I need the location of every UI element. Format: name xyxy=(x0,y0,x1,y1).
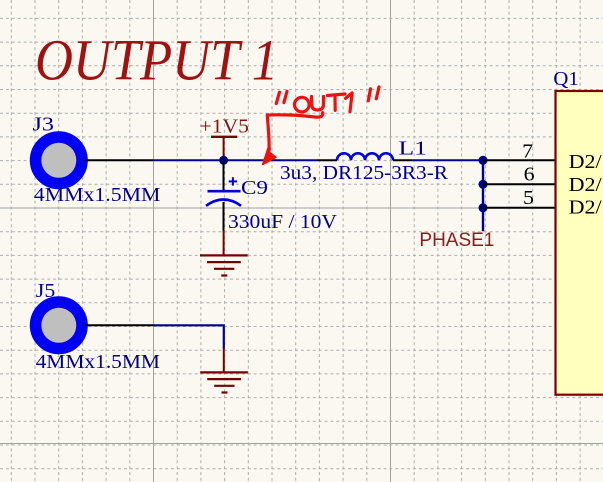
junction node pin6 xyxy=(479,180,488,189)
svg-text:C9: C9 xyxy=(241,177,268,199)
svg-text:OUTPUT 1: OUTPUT 1 xyxy=(35,27,278,92)
title OUTPUT 1 xyxy=(35,27,278,92)
svg-text:+1V5: +1V5 xyxy=(200,116,250,138)
annotation "OUT1" (hand-drawn) xyxy=(276,87,379,112)
svg-text:7: 7 xyxy=(522,140,533,162)
junction node pin7 xyxy=(479,156,488,165)
wire pin 5 xyxy=(483,207,556,209)
wire vertical bus to PHASE1 xyxy=(482,160,484,231)
svg-text:4MMx1.5MM: 4MMx1.5MM xyxy=(34,184,161,206)
svg-text:PHASE1: PHASE1 xyxy=(419,230,494,251)
svg-text:3u3, DR125-3R3-R: 3u3, DR125-3R3-R xyxy=(280,162,449,184)
svg-text:D2/: D2/ xyxy=(569,151,602,173)
wire pin 6 xyxy=(483,183,556,185)
IC Q1 body xyxy=(556,91,603,395)
ground (J5) xyxy=(200,348,248,393)
svg-text:D2/: D2/ xyxy=(569,174,602,196)
svg-text:4MMx1.5MM: 4MMx1.5MM xyxy=(36,351,161,373)
svg-text:Q1: Q1 xyxy=(553,68,578,90)
wire pin 7 xyxy=(483,159,556,161)
connector J3 pad xyxy=(36,137,82,183)
power port +1V5 xyxy=(200,116,250,161)
junction node at +1V5 xyxy=(219,156,228,165)
pin of J5 xyxy=(85,324,154,326)
pin of J3 xyxy=(85,159,154,161)
svg-text:J5: J5 xyxy=(36,280,56,302)
wire L1 to Q1 xyxy=(412,159,483,161)
capacitor C9 xyxy=(206,160,241,231)
svg-text:330uF / 10V: 330uF / 10V xyxy=(228,211,338,233)
svg-text:D2/: D2/ xyxy=(569,197,602,219)
svg-text:J3: J3 xyxy=(33,114,55,136)
wire J5 to ground xyxy=(154,325,224,348)
connector J5 pad xyxy=(36,302,82,348)
inductor L1 xyxy=(317,153,412,160)
svg-text:5: 5 xyxy=(523,187,534,209)
junction node pin5 xyxy=(479,203,488,212)
svg-text:6: 6 xyxy=(524,164,535,186)
svg-text:L1: L1 xyxy=(399,138,428,160)
wire J3 to L1 xyxy=(154,159,318,161)
annotation leader arrow (hand-drawn) xyxy=(263,113,323,165)
ground (C9) xyxy=(200,231,248,276)
